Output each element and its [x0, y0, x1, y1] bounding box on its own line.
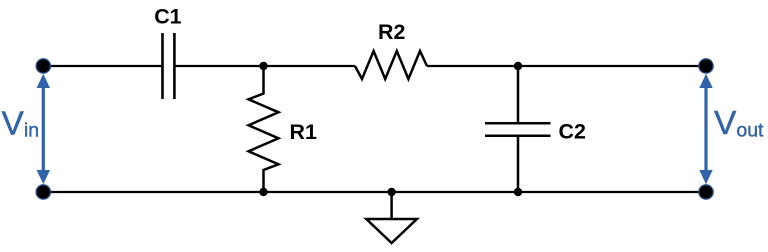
junction ground [387, 188, 395, 196]
node B junction (R2/C2 top) [514, 62, 522, 70]
wire top rail right segment (R2 to output node, through node B) [427, 65, 706, 67]
svg-text:Vout: Vout [714, 105, 764, 142]
node input bottom (terminal dot) [36, 185, 50, 199]
svg-text:C2: C2 [559, 120, 586, 144]
capacitor C1 [163, 33, 175, 99]
node output top (terminal dot) [699, 59, 713, 73]
Vout measurement arrow [699, 74, 712, 184]
junction R1 bottom [259, 188, 267, 196]
resistor R2 [355, 51, 427, 79]
wire bottom rail (ground rail) [43, 191, 706, 193]
svg-text:C1: C1 [154, 5, 181, 29]
wire top rail middle segment (C1 to R2, through node A) [176, 65, 356, 67]
node input top (terminal dot) [36, 59, 50, 73]
junction C2 bottom [514, 188, 522, 196]
Vin measurement arrow [37, 74, 50, 184]
ground [366, 192, 417, 243]
node output bottom (terminal dot) [699, 185, 713, 199]
capacitor C2 [485, 66, 551, 192]
svg-text:Vin: Vin [2, 106, 40, 143]
wire top rail left segment (input node to C1) [43, 65, 162, 67]
svg-text:R1: R1 [290, 120, 317, 144]
node A junction (C1/R1/R2) [259, 62, 267, 70]
resistor R1 [249, 66, 279, 192]
svg-text:R2: R2 [378, 20, 405, 44]
